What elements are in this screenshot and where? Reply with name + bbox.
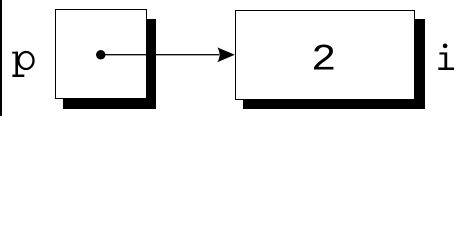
label i : stem bbox=[444, 52, 447, 70]
int box i: shadow bbox=[243, 19, 425, 109]
label p : foot serif bbox=[12, 75, 24, 78]
arrow wire from dot to int box bbox=[103, 54, 219, 55]
value 2 bbox=[311, 42, 336, 79]
label p : stem bbox=[15, 52, 18, 76]
pointer origin dot bbox=[96, 50, 106, 60]
left border line bbox=[0, 0, 2, 116]
label i : dot bbox=[443, 44, 448, 49]
pointer box p: shadow bbox=[63, 19, 156, 109]
label p : top serif bbox=[12, 52, 18, 54]
label i : flag serif bbox=[439, 52, 444, 54]
arrowhead bbox=[217, 47, 235, 62]
label i : base serif bbox=[438, 68, 454, 71]
int box i bbox=[235, 10, 416, 100]
label p : bowl bbox=[19, 52, 34, 69]
pointer box p bbox=[55, 9, 147, 99]
